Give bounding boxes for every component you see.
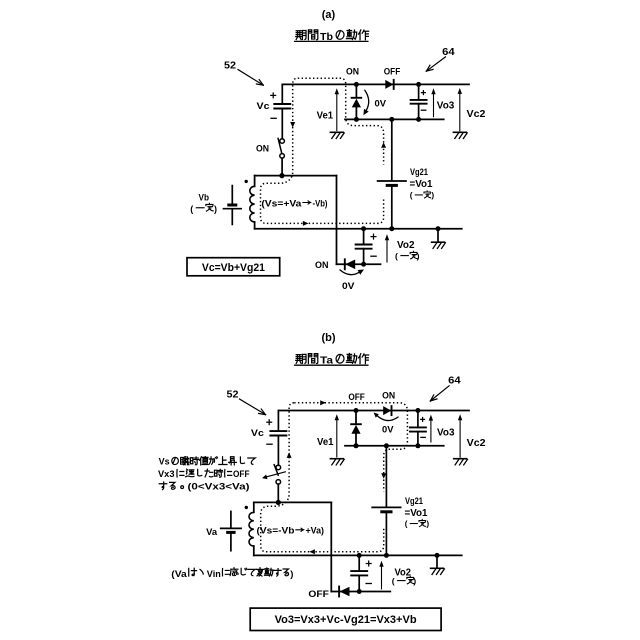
- svg-text:52: 52: [224, 60, 236, 72]
- svg-text:): ): [417, 251, 420, 261]
- svg-text:0V: 0V: [375, 99, 387, 110]
- svg-text:OFF: OFF: [308, 589, 329, 599]
- svg-text:Vo2: Vo2: [397, 240, 415, 251]
- svg-text:OFF: OFF: [384, 67, 401, 77]
- svg-text:Vo3=Vx3+Vc-Vg21=Vx3+Vb: Vo3=Vx3+Vc-Vg21=Vx3+Vb: [275, 614, 417, 626]
- svg-text:(Vs=+Va: (Vs=+Va: [261, 198, 302, 209]
- svg-text:+Va): +Va): [306, 526, 325, 537]
- svg-text:=Vo1: =Vo1: [410, 179, 433, 190]
- svg-text:Va: Va: [206, 527, 218, 538]
- svg-text:64: 64: [448, 375, 461, 387]
- svg-text:(: (: [190, 204, 193, 214]
- svg-text:Ve1: Ve1: [317, 111, 334, 122]
- svg-text:ON: ON: [382, 391, 395, 401]
- svg-text:Vc=Vb+Vg21: Vc=Vb+Vg21: [202, 262, 265, 274]
- svg-text:(: (: [395, 251, 398, 261]
- svg-text:Vo3: Vo3: [437, 427, 455, 438]
- svg-text:0V: 0V: [382, 424, 394, 435]
- svg-text:ON: ON: [315, 260, 329, 270]
- svg-text:ON: ON: [346, 67, 359, 77]
- svg-text:ON: ON: [256, 143, 269, 153]
- svg-text:): ): [431, 191, 434, 200]
- svg-text:(: (: [392, 576, 395, 586]
- svg-text:-Vb): -Vb): [313, 198, 328, 209]
- svg-text:(b): (b): [321, 332, 335, 344]
- svg-text:Vc: Vc: [251, 428, 264, 439]
- svg-text:64: 64: [442, 46, 455, 58]
- svg-text:): ): [290, 569, 293, 580]
- svg-text:52: 52: [227, 389, 239, 401]
- svg-text:(: (: [405, 519, 408, 528]
- svg-text:Vo2: Vo2: [395, 567, 412, 578]
- svg-text:Vg21: Vg21: [405, 496, 424, 507]
- svg-text:Vin: Vin: [207, 569, 221, 580]
- svg-text:=Vo1: =Vo1: [405, 508, 428, 519]
- svg-text:(Va: (Va: [171, 569, 187, 580]
- svg-text:OFF: OFF: [348, 392, 365, 402]
- svg-text:OFF: OFF: [233, 469, 250, 479]
- svg-text:Vc: Vc: [257, 101, 270, 112]
- svg-text:Vb: Vb: [199, 193, 210, 204]
- svg-text:): ): [426, 519, 429, 528]
- svg-text:Vo3: Vo3: [437, 100, 455, 111]
- svg-text:Vg21: Vg21: [410, 167, 429, 178]
- svg-text:(0<Vx3<Va): (0<Vx3<Va): [188, 482, 250, 492]
- svg-text:0V: 0V: [342, 281, 355, 292]
- svg-text:(: (: [410, 191, 413, 200]
- svg-text:): ): [214, 204, 217, 214]
- svg-text:Ve1: Ve1: [317, 437, 334, 448]
- svg-text:(Vs=-Vb: (Vs=-Vb: [257, 526, 295, 537]
- svg-text:): ): [413, 576, 416, 586]
- svg-text:Vc2: Vc2: [467, 109, 486, 120]
- svg-text:Vc2: Vc2: [467, 438, 486, 449]
- svg-text:(a): (a): [322, 9, 336, 21]
- svg-text:Vs: Vs: [159, 457, 170, 467]
- svg-text:Vx3: Vx3: [158, 469, 175, 479]
